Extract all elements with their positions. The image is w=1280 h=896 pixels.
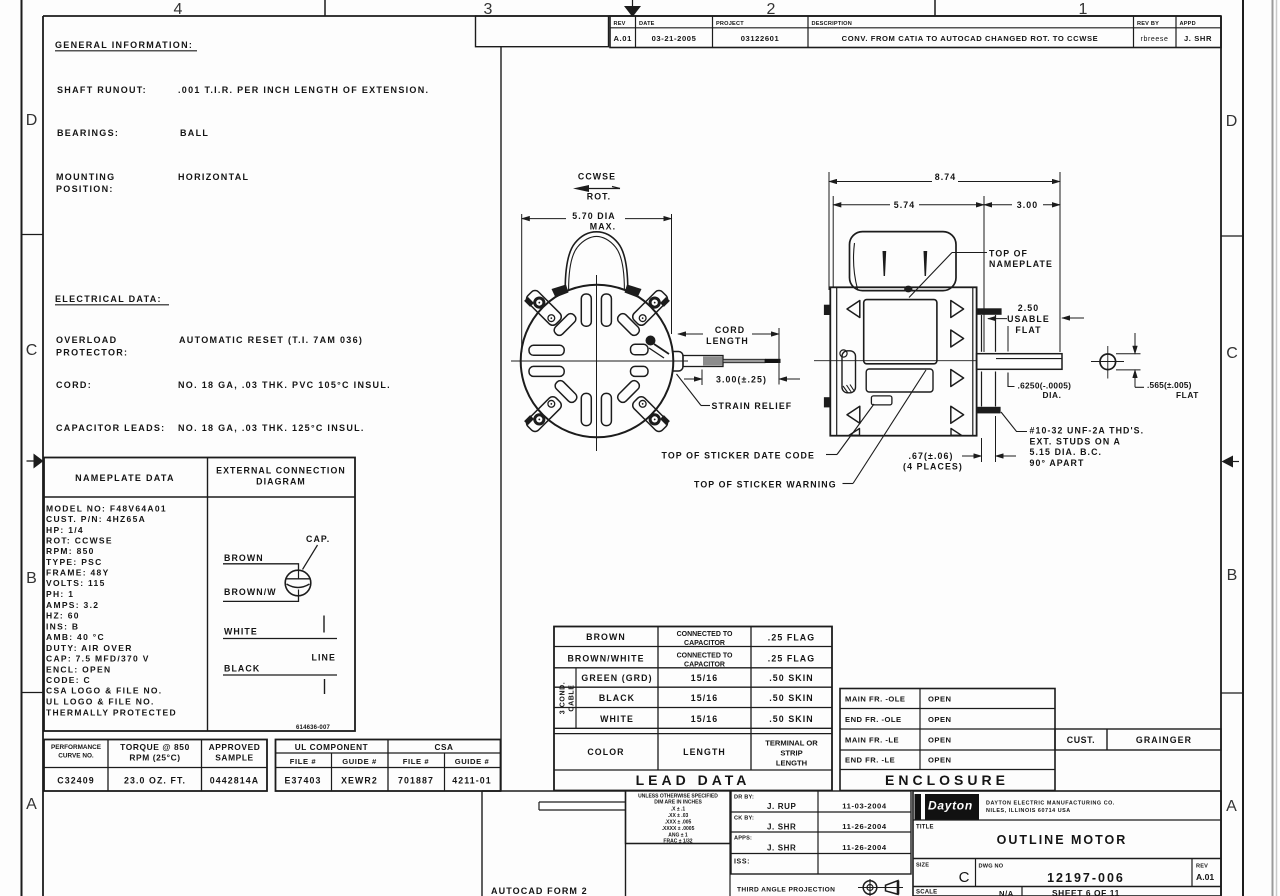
svg-text:CUST. P/N: 4HZ65A: CUST. P/N: 4HZ65A [46,514,146,524]
svg-text:SCALE: SCALE [916,890,937,896]
svg-text:(4 PLACES): (4 PLACES) [903,462,963,472]
size cell [916,863,970,887]
svg-text:FLAT: FLAT [1176,390,1199,400]
svg-text:.50 SKIN: .50 SKIN [769,714,814,724]
svg-text:MAIN FR. -LE: MAIN FR. -LE [845,736,899,745]
svg-text:03-21-2005: 03-21-2005 [652,34,697,43]
svg-text:ROT.: ROT. [587,192,611,202]
zone tick top 2/1 [934,0,936,16]
dim .67 extension lines [982,416,996,462]
UL CSA headers [290,743,490,766]
svg-text:PROJECT: PROJECT [716,21,744,27]
svg-text:EXTERNAL CONNECTION: EXTERNAL CONNECTION [216,466,346,476]
dr by row [734,795,887,812]
svg-text:.6250(-.0005): .6250(-.0005) [1018,381,1072,391]
svg-text:.565(±.005): .565(±.005) [1147,380,1192,390]
ck by row [734,816,887,832]
lead row green [581,673,813,683]
svg-text:CCWSE: CCWSE [578,172,616,182]
svg-text:NO. 18 GA, .03 THK. 125°C INSU: NO. 18 GA, .03 THK. 125°C INSUL. [178,423,365,433]
warning sticker [866,369,933,392]
svg-text:ISS:: ISS: [734,859,750,866]
zone tick top 4/3 [324,0,326,16]
zone tick right D/C [1221,235,1243,237]
svg-text:TOP OF STICKER DATE CODE: TOP OF STICKER DATE CODE [662,451,815,461]
svg-text:.001 T.I.R. PER INCH LENGTH OF: .001 T.I.R. PER INCH LENGTH OF EXTENSION… [178,85,429,95]
svg-text:15/16: 15/16 [691,693,719,703]
zone number 4 [174,1,183,18]
dim 3.00 cord [684,370,800,386]
capacitor symbol [285,570,311,596]
shaft runout note [57,85,429,95]
svg-text:LINE: LINE [312,653,336,663]
svg-text:FRAME: 48Y: FRAME: 48Y [46,568,110,578]
svg-text:OPEN: OPEN [928,715,952,724]
svg-text:MAIN FR. -OLE: MAIN FR. -OLE [845,695,906,704]
performance table data row [57,776,259,786]
mounting bracket SE [631,394,671,434]
svg-text:BLACK: BLACK [224,664,260,674]
svg-text:15/16: 15/16 [691,673,719,683]
side view centerline [814,360,977,362]
svg-text:2.50: 2.50 [1018,303,1040,313]
motor shell circle [521,285,674,438]
svg-text:VOLTS: 115: VOLTS: 115 [46,578,106,588]
handle prong right [924,251,928,276]
svg-text:ENCLOSURE: ENCLOSURE [885,772,1009,788]
divider line between info panel and drawing area [500,47,502,791]
louver right row4 [951,406,964,423]
title block frame [913,791,1221,896]
svg-text:GREEN (GRD): GREEN (GRD) [581,673,652,683]
svg-text:5.15 DIA. B.C.: 5.15 DIA. B.C. [1030,447,1103,457]
svg-text:FRAC ± 1/32: FRAC ± 1/32 [663,839,692,845]
nameplate data header [75,473,175,483]
svg-text:BROWN: BROWN [224,553,264,563]
svg-text:HORIZONTAL: HORIZONTAL [178,172,249,182]
black line terminal tick [324,679,326,694]
svg-text:CSA LOGO & FILE NO.: CSA LOGO & FILE NO. [46,686,162,696]
revision table headers [614,21,1196,27]
svg-text:C: C [959,869,970,886]
carry handle dome [565,232,628,290]
svg-text:APPD: APPD [1180,21,1196,27]
vent slot diag upper-left [552,312,577,337]
svg-text:BEARINGS:: BEARINGS: [57,128,119,138]
svg-text:A.01: A.01 [613,34,632,43]
svg-text:OVERLOAD: OVERLOAD [56,335,117,345]
zone letter D left [26,112,38,129]
shaft flat reference lines [1116,354,1141,370]
shaft end view circle [1091,346,1124,379]
svg-text:EXT. STUDS ON A: EXT. STUDS ON A [1030,436,1121,446]
svg-text:LENGTH: LENGTH [776,759,807,768]
dayton company name [986,801,1115,815]
front view horizontal centerline [511,360,688,362]
handle clamp foot left [552,285,569,298]
svg-text:END FR. -LE: END FR. -LE [845,756,895,765]
dim 5.74 extension lines [833,196,984,352]
autocad form box [482,791,626,896]
UL CSA component table [276,740,501,792]
dim 5.74 [833,200,984,210]
svg-text:BROWN/WHITE: BROWN/WHITE [567,654,644,664]
svg-text:APPROVED: APPROVED [209,742,261,752]
strain relief clamp bolt [646,336,670,359]
svg-text:.67(±.06): .67(±.06) [908,451,953,461]
date code sticker [871,396,892,405]
zone tick right B/A [1221,692,1243,694]
vent slot top right [601,294,611,326]
drawing title outline motor [997,833,1128,847]
svg-text:11-03-2004: 11-03-2004 [842,802,887,811]
louver right row5 partial [951,429,962,436]
svg-text:USABLE: USABLE [1007,314,1050,324]
svg-text:11-26-2004: 11-26-2004 [842,822,887,831]
svg-text:12197-006: 12197-006 [1047,871,1125,885]
end cap line left [836,287,838,435]
svg-text:4211-01: 4211-01 [452,776,492,786]
svg-text:CORD: CORD [715,325,745,335]
svg-text:RPM: 850: RPM: 850 [46,546,95,556]
zone letter C left [26,342,38,359]
general information heading [55,40,197,51]
overload protector note [56,335,363,358]
dim 5.70 dimension lines [522,218,672,220]
svg-text:15/16: 15/16 [691,714,719,724]
zone number 3 [484,1,493,18]
svg-text:DATE: DATE [639,21,655,27]
svg-text:614636-007: 614636-007 [296,725,330,731]
svg-text:B: B [1227,567,1238,584]
svg-text:TOP OF: TOP OF [989,249,1028,259]
svg-text:8.74: 8.74 [935,172,957,182]
svg-text:BROWN: BROWN [586,632,626,642]
mounting position note [56,172,249,194]
zone tick left B/A [22,692,44,694]
power cord [683,356,781,367]
svg-text:NAMEPLATE: NAMEPLATE [989,259,1053,269]
svg-text:REV BY: REV BY [1137,21,1159,27]
white line terminal tick [323,616,325,633]
svg-text:PERFORMANCE: PERFORMANCE [51,744,102,751]
svg-text:J. SHR: J. SHR [767,844,796,853]
dim 3.00 top [984,200,1060,210]
svg-text:HZ: 60: HZ: 60 [46,611,80,621]
svg-text:DIAGRAM: DIAGRAM [256,477,306,487]
stud left top [824,305,830,315]
dim 8.74 extension lines [829,172,1060,352]
svg-text:PROTECTOR:: PROTECTOR: [56,348,128,358]
svg-text:23.0 OZ. FT.: 23.0 OZ. FT. [124,776,186,786]
stud thread note [1030,426,1145,468]
line label [312,653,336,663]
size row dividers [976,859,1193,887]
svg-text:MODEL NO: F48V64A01: MODEL NO: F48V64A01 [46,503,167,513]
cord length label [706,325,749,346]
svg-text:GUIDE #: GUIDE # [342,757,377,766]
louver right row1 [951,301,964,318]
dim .565 flat [1135,333,1199,400]
revision row A.01 [613,34,1212,43]
zone letter A right [1226,798,1237,815]
apps row [734,836,887,853]
louver left row4 [847,406,860,423]
svg-text:C: C [1226,345,1238,362]
svg-text:N/A: N/A [999,889,1014,896]
mounting bracket NE [631,288,671,328]
lead row white [600,714,814,724]
dim 5.70 extension lines [522,214,672,352]
svg-text:CONNECTED TO: CONNECTED TO [677,653,733,660]
front view vertical centerline [596,275,598,451]
svg-text:.XX ± .03: .XX ± .03 [668,813,689,819]
svg-text:ELECTRICAL DATA:: ELECTRICAL DATA: [55,294,162,304]
zone number 2 [767,1,776,18]
vent slot right lower [631,366,649,376]
nameplate on motor [864,300,937,364]
brown/white lead label [223,587,299,601]
top of sticker warning label [694,370,926,490]
notch slot under lead data [539,802,626,810]
svg-text:DR BY:: DR BY: [734,795,754,801]
dim .6250 dia [1008,373,1071,401]
border: inner frame top [43,15,1221,17]
stud right top [977,308,1002,315]
svg-text:CSA: CSA [434,743,453,752]
svg-text:OPEN: OPEN [928,756,952,765]
vent slot diag upper-right [616,312,641,337]
svg-text:NILES, ILLINOIS 60714 USA: NILES, ILLINOIS 60714 USA [986,808,1071,814]
svg-text:CAPACITOR LEADS:: CAPACITOR LEADS: [56,423,165,433]
svg-text:LEAD DATA: LEAD DATA [636,772,751,788]
svg-text:J. SHR: J. SHR [767,823,796,832]
svg-text:CODE: C: CODE: C [46,675,91,685]
bearing boss bottom [982,372,996,407]
svg-text:GENERAL INFORMATION:: GENERAL INFORMATION: [55,40,193,50]
enclosure rows [845,695,952,765]
third angle projection symbol [858,879,903,896]
svg-text:E37403: E37403 [285,776,322,786]
svg-text:UL LOGO & FILE NO.: UL LOGO & FILE NO. [46,697,155,707]
vent slot diag lower-right [616,379,641,404]
ccwse rotation label [578,172,616,202]
svg-text:701887: 701887 [398,776,434,786]
svg-text:4: 4 [174,1,183,18]
svg-text:FILE #: FILE # [290,757,317,766]
svg-text:D: D [1226,113,1238,130]
rev cell [1196,864,1214,883]
motor shaft [977,354,1062,370]
svg-text:RPM (25°C): RPM (25°C) [129,753,180,763]
svg-text:BROWN/W: BROWN/W [224,587,277,597]
svg-text:SIZE: SIZE [916,863,929,869]
side view handle [850,232,957,291]
svg-text:THIRD ANGLE PROJECTION: THIRD ANGLE PROJECTION [737,887,835,894]
louver right row3 [951,370,964,387]
svg-text:3 COND.: 3 COND. [560,682,567,715]
svg-text:STRAIN RELIEF: STRAIN RELIEF [712,401,793,411]
enclosure table frame [840,689,1055,791]
svg-text:DIM ARE IN INCHES: DIM ARE IN INCHES [654,800,702,806]
svg-text:ENCL: OPEN: ENCL: OPEN [46,664,111,674]
zone letter D right [1226,113,1238,130]
svg-text:.X ± .1: .X ± .1 [671,807,686,813]
dwg no cell [979,864,1125,886]
svg-text:FILE #: FILE # [403,757,430,766]
top of nameplate label [909,249,1053,298]
svg-text:NO. 18 GA, .03 THK. PVC 105°C: NO. 18 GA, .03 THK. PVC 105°C INSUL. [178,380,391,390]
nameplate data list [46,503,177,717]
svg-text:.25 FLAG: .25 FLAG [768,633,815,643]
svg-text:DWG NO: DWG NO [979,864,1004,870]
white lead label [223,627,337,639]
capacitor leads note [56,423,365,433]
svg-text:A.01: A.01 [1196,872,1214,882]
louver right row2 [951,330,964,347]
zone number 1 [1079,1,1088,18]
diagram part number [296,725,330,731]
stud thread note leader [1001,412,1027,432]
svg-text:rbreese: rbreese [1141,36,1169,43]
svg-text:APPS:: APPS: [734,836,752,842]
vent slot bottom left [581,393,591,425]
svg-text:CONNECTED TO: CONNECTED TO [677,631,733,638]
svg-text:CONV. FROM CATIA TO AUTOCAD CH: CONV. FROM CATIA TO AUTOCAD CHANGED ROT.… [842,34,1099,43]
cap leader [303,545,318,570]
svg-text:OPEN: OPEN [928,695,952,704]
revision area empty box [476,16,609,47]
svg-text:AUTOCAD FORM 2: AUTOCAD FORM 2 [491,886,588,896]
svg-text:B: B [26,570,37,587]
svg-text:STRIP: STRIP [780,749,802,758]
sheet center marker top [624,0,641,17]
svg-text:AUTOMATIC RESET (T.I. 7AM 036): AUTOMATIC RESET (T.I. 7AM 036) [179,335,363,345]
svg-text:WHITE: WHITE [224,627,258,637]
border: outer right line [1242,0,1244,896]
third angle projection label [737,887,835,894]
tolerance block text [638,794,718,845]
svg-text:C: C [26,342,38,359]
stud right bottom [977,407,1001,414]
border: scan edge strip right [1273,0,1277,896]
svg-text:SHAFT RUNOUT:: SHAFT RUNOUT: [57,85,147,95]
UL CSA data row [285,776,492,786]
svg-text:WHITE: WHITE [600,714,634,724]
black lead label [223,664,337,676]
louver left row5 partial [849,429,860,436]
svg-text:LENGTH: LENGTH [683,747,726,757]
dayton logo [915,794,980,820]
enclosure footer [885,772,1009,788]
performance curve table [44,740,267,792]
nameplate data box [44,458,355,732]
svg-text:INS: B: INS: B [46,621,79,631]
svg-text:.25 FLAG: .25 FLAG [768,654,815,664]
svg-text:3.00: 3.00 [1017,200,1039,210]
svg-text:A: A [26,796,37,813]
motor body outline [830,287,976,435]
svg-text:BALL: BALL [180,128,209,138]
svg-text:DAYTON ELECTRIC MANUFACTURING: DAYTON ELECTRIC MANUFACTURING CO. [986,801,1115,807]
svg-text:TERMINAL OR: TERMINAL OR [765,739,818,748]
svg-text:Dayton: Dayton [928,799,973,813]
external connection diagram header [216,466,346,487]
svg-text:C32409: C32409 [57,776,94,786]
approvals block frame [731,791,911,874]
svg-text:J. SHR: J. SHR [1184,34,1212,43]
svg-text:SAMPLE: SAMPLE [215,753,254,763]
svg-text:0442814A: 0442814A [210,776,259,786]
svg-text:ROT: CCWSE: ROT: CCWSE [46,536,113,546]
svg-text:A: A [1226,798,1237,815]
cord length dimension [678,328,779,385]
svg-text:DIA.: DIA. [1043,390,1062,400]
vent slot left lower [529,366,564,376]
dim 8.74 [829,172,1060,182]
svg-text:CUST.: CUST. [1067,735,1095,745]
svg-text:CAP.: CAP. [306,534,330,544]
vent slot right upper [631,344,649,355]
customer grainger row [1055,729,1221,750]
lead row black [599,693,814,703]
svg-text:AMPS: 3.2: AMPS: 3.2 [46,600,99,610]
electrical data heading [55,294,169,305]
title label [916,825,934,831]
lead data table frame [554,627,832,791]
svg-text:XEWR2: XEWR2 [341,776,378,786]
bearing boss top [982,315,996,352]
lead row brown [586,631,815,647]
scale row [916,887,1120,896]
strain relief label [677,374,793,411]
svg-text:D: D [26,112,38,129]
svg-text:CAPACITOR: CAPACITOR [684,640,725,647]
svg-text:COLOR: COLOR [587,747,624,757]
svg-text:OPEN: OPEN [928,736,952,745]
svg-text:SHEET 6 OF 11: SHEET 6 OF 11 [1052,888,1120,896]
mounting bracket NW [523,288,563,328]
revision table frame [610,16,1221,48]
svg-text:END FR. -OLE: END FR. -OLE [845,715,902,724]
end cap line right [972,287,974,435]
oil tube [840,350,856,393]
bearings note [57,128,209,138]
zone letter A left [26,796,37,813]
svg-text:MOUNTING: MOUNTING [56,172,115,182]
performance table headers [51,742,260,763]
svg-text:DUTY: AIR OVER: DUTY: AIR OVER [46,643,133,653]
lead row brown/white [567,653,815,669]
svg-text:TORQUE @ 850: TORQUE @ 850 [120,742,190,752]
dim .67 [903,451,1016,472]
strain relief body [673,352,684,372]
handle prong left [883,251,887,276]
dim 5.70 dia max text [572,211,616,232]
vent slot left upper [529,345,564,355]
svg-text:AMB: 40 °C: AMB: 40 °C [46,632,105,642]
dim 2.50 usable flat [988,303,1084,352]
louver left row1 [847,301,860,318]
border: inner frame right [1220,16,1222,896]
zone tick left D/C [22,234,44,236]
svg-text:HP: 1/4: HP: 1/4 [46,525,84,535]
border: outer left line [21,0,23,896]
zone letter C right [1226,345,1238,362]
sheet center marker left [27,454,44,469]
svg-text:11-26-2004: 11-26-2004 [842,843,887,852]
svg-text:DESCRIPTION: DESCRIPTION [812,21,852,27]
